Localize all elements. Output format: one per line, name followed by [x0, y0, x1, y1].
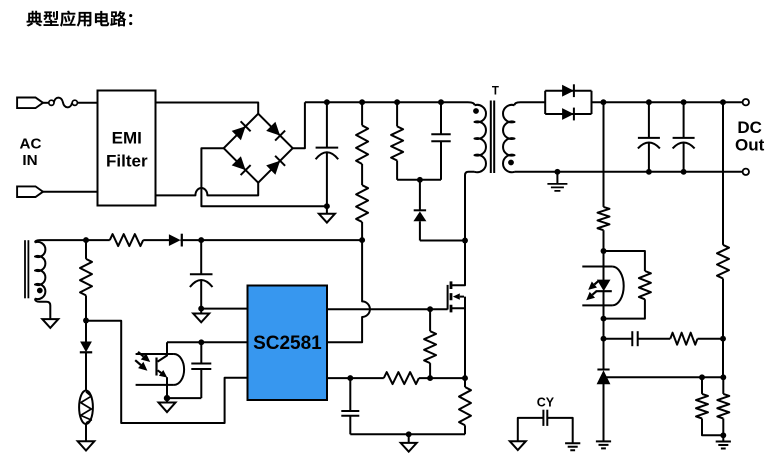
opto incoming light arrows — [138, 352, 143, 357]
aux zener diode — [85, 321, 87, 342]
junction node compensation branch — [601, 336, 607, 342]
output capacitor C_o1 — [648, 102, 650, 138]
gate pull-down resistor — [429, 309, 431, 331]
MOSFET Q1 drain — [451, 241, 465, 286]
bridge diode D3 (left-bottom edge) — [232, 156, 246, 170]
junction node rail/bulk cap — [324, 99, 330, 105]
transformer primary winding — [475, 105, 486, 172]
bridge diode D4 (bottom-right edge) — [266, 161, 280, 175]
primary ground under CY — [510, 441, 526, 450]
junction node rectifier output — [600, 99, 606, 105]
aux series resistor — [110, 234, 143, 246]
ground under aux winding — [42, 319, 58, 328]
junction node VCC cap tap — [198, 237, 204, 243]
junction node drain/clamp — [462, 238, 468, 244]
output capacitor C_o2 — [683, 102, 685, 138]
junction node CS cap — [347, 375, 353, 381]
snubber clamp diode — [419, 180, 421, 211]
DC+ output rail — [592, 101, 743, 103]
opto LED bypass resistor — [604, 251, 645, 271]
wire terminal to fuse — [43, 102, 49, 104]
junction node divider bottom — [720, 432, 726, 438]
shunt regulator TL431 — [597, 369, 609, 371]
wire bridge - output to primary ground rail — [201, 148, 327, 206]
primary ground symbol under bulk cap — [326, 206, 328, 214]
transformer secondary winding — [503, 105, 514, 172]
aux divider resistor — [85, 240, 87, 259]
earth ground under TL431 — [596, 441, 611, 448]
optocoupler LED (emitter side) enclosure — [582, 267, 612, 306]
bulk electrolytic capacitor — [326, 102, 328, 147]
gate drive wire — [327, 308, 448, 310]
snubber capacitor — [440, 102, 442, 134]
primary phase dot — [473, 108, 479, 114]
aux winding top lead — [35, 240, 110, 242]
MOSFET Q1 source — [451, 297, 465, 379]
junction node snubber/diode — [417, 177, 423, 183]
VCC rail wire — [180, 239, 362, 241]
junction node out cap2 top — [681, 99, 687, 105]
wire EMI bottom to bridge AC2 (hops over ground wire) — [156, 183, 259, 196]
aux rectifier diode — [169, 234, 181, 246]
line sense wire with hop over gate wire — [327, 240, 370, 342]
surge resistor (varistor) — [79, 391, 93, 425]
junction node ref/divider R right — [720, 374, 726, 380]
junction node LED cathode — [601, 316, 607, 322]
opto LED series resistor — [598, 207, 610, 230]
junction node rail/snubber R — [394, 99, 400, 105]
junction node VCC cap/ground — [198, 306, 204, 312]
svg-text:CY: CY — [537, 396, 555, 410]
svg-text:DC: DC — [737, 118, 762, 137]
bridge rectifier diamond — [224, 114, 293, 183]
svg-text:EMI: EMI — [112, 128, 142, 147]
junction node comp/divider rail — [720, 336, 726, 342]
primary bottom lead to drain — [465, 172, 475, 241]
junction node cap bottom x=683.6 — [681, 169, 687, 175]
junction node CS ground — [406, 431, 412, 437]
AC input terminal (neutral) — [17, 186, 43, 197]
divider lower resistor A — [701, 377, 703, 394]
secondary earth ground — [556, 172, 558, 184]
junction node CS/source — [462, 375, 468, 381]
junction node aux divider tap — [83, 318, 89, 324]
MOSFET Q1 channel segments — [450, 281, 453, 312]
CS capacitor — [349, 378, 351, 411]
wire terminal to EMI filter — [43, 191, 98, 193]
svg-text:AC: AC — [20, 136, 42, 153]
title text 典型应用电路： — [27, 11, 133, 27]
bridge diode D2 (top-right edge) — [266, 122, 280, 136]
junction node out cap1 top — [646, 99, 652, 105]
svg-text:Filter: Filter — [106, 151, 148, 170]
junction node aux/divider — [83, 237, 89, 243]
bridge diode D1 (left-top edge) — [232, 126, 246, 140]
AC input terminal (line) — [17, 98, 43, 109]
junction node ground rail/bulk cap — [324, 203, 330, 209]
MOSFET Q1 body arrow — [460, 296, 464, 298]
junction node cap bottom x=648.9 — [646, 169, 652, 175]
CS filter resistor — [384, 372, 419, 384]
EMI Filter block — [98, 91, 156, 206]
junction node gate/gate resistor — [427, 306, 433, 312]
aux phase dot — [37, 288, 43, 294]
CS pin wire — [327, 377, 384, 379]
secondary bottom lead / output return rail — [515, 171, 743, 173]
optocoupler phototransistor enclosure — [136, 354, 174, 385]
junction node LED anode — [601, 248, 607, 254]
ground under VCC pin — [200, 309, 202, 314]
DC+ terminal — [743, 99, 749, 105]
divider lower resistor B — [722, 377, 724, 394]
snubber resistor — [396, 102, 398, 126]
wire clamp diode to drain node — [420, 240, 465, 242]
transformer T core — [490, 101, 492, 174]
FB filter capacitor — [200, 342, 202, 363]
output rectifier parallel diodes box — [545, 91, 591, 114]
opto LED diode — [603, 251, 605, 280]
opto phototransistor — [158, 342, 167, 361]
CS ground wire — [350, 433, 465, 435]
svg-text:IN: IN — [22, 152, 37, 169]
aux winding bottom lead — [35, 299, 50, 320]
junction node CS/gate R — [427, 375, 433, 381]
compensation capacitor — [604, 338, 633, 340]
junction node output/divider branch — [720, 99, 726, 105]
DC- terminal — [743, 169, 749, 175]
controller IC U1 SC2581 — [248, 286, 328, 401]
wire rectifier node down to feedback — [603, 102, 605, 207]
wire bridge + output to HV rail — [293, 102, 305, 148]
VCC capacitor — [200, 240, 202, 274]
aux winding core — [24, 240, 26, 298]
Y-capacitor CY — [542, 410, 544, 426]
fuse F1 — [49, 100, 54, 105]
junction node divider/VCC rail — [359, 237, 365, 243]
aux winding coil — [35, 242, 45, 299]
FB pin wire — [167, 341, 248, 343]
junction node rail/divider — [359, 99, 365, 105]
secondary phase dot — [508, 160, 514, 166]
wire fuse to EMI filter — [77, 102, 97, 104]
wire between divider resistors — [361, 164, 363, 185]
output diode D6 — [562, 108, 574, 120]
current sense resistor — [464, 378, 466, 387]
compensation resistor — [670, 333, 697, 345]
opto LED light arrows — [594, 281, 598, 284]
secondary top lead — [515, 102, 546, 105]
divider upper resistor from DC+ — [722, 102, 724, 245]
junction node FB/cap — [198, 339, 204, 345]
wire emitter to cap bottom — [167, 397, 201, 399]
svg-text:SC2581: SC2581 — [253, 333, 322, 354]
line sense resistor R upper — [361, 102, 363, 125]
reference node wire — [606, 376, 724, 378]
svg-text:T: T — [492, 86, 499, 98]
ground under opto emitter — [166, 398, 168, 402]
pin wire to aux divider (routed) — [86, 321, 248, 423]
svg-text:Out: Out — [735, 136, 765, 155]
VCC pin wire — [201, 308, 247, 310]
snubber RC bottom wire — [397, 179, 441, 181]
output diode D5 — [562, 85, 574, 97]
HV top rail — [305, 102, 475, 105]
ground under surge resistor — [78, 441, 95, 450]
line sense resistor R lower — [356, 185, 368, 222]
earth ground under divider — [722, 435, 724, 441]
junction node ref/divider R left — [699, 374, 705, 380]
MOSFET Q1 gate bar — [447, 285, 449, 310]
junction node opto emitter/ground — [164, 395, 170, 401]
junction node secondary ground — [554, 169, 560, 175]
ground under CS network — [408, 434, 410, 443]
earth ground right of CY — [565, 443, 580, 450]
junction node rail/snubber C — [438, 99, 444, 105]
wire EMI top to bridge AC1 — [156, 103, 259, 114]
